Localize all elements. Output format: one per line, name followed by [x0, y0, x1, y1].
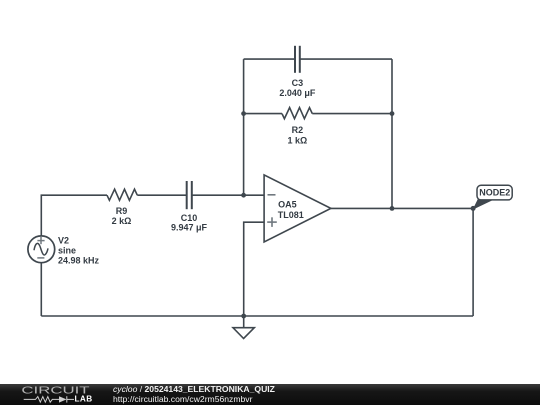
footer bar — [0, 384, 540, 405]
op-amp OA5 triangle — [264, 175, 331, 242]
svg-text:C10: C10 — [181, 213, 198, 223]
svg-text:OA5: OA5 — [278, 200, 297, 210]
V2 minus mark — [37, 257, 44, 259]
wire: output to NODE2 corner — [331, 207, 473, 209]
V2 sine symbol — [34, 243, 48, 255]
wire: non-inverting input — [244, 222, 264, 316]
wire: V2 top to R9 — [41, 195, 107, 236]
wire: V2 bottom to bottom rail — [40, 263, 42, 317]
wire: top branch to C3 — [244, 58, 295, 60]
junction node: R2 left — [241, 111, 246, 116]
wire: C10 to op-amp inverting input — [192, 194, 264, 196]
svg-text:R9: R9 — [116, 206, 128, 216]
op-amp plus input mark — [267, 221, 277, 223]
svg-text:2 kΩ: 2 kΩ — [112, 216, 132, 226]
capacitor C10 — [187, 181, 192, 209]
svg-text:24.98 kHz: 24.98 kHz — [58, 256, 100, 266]
wire: output down to bottom rail — [472, 208, 474, 316]
wire: R9 to C10 — [137, 194, 186, 196]
svg-text:C3: C3 — [292, 78, 304, 88]
voltage source V2 circle — [28, 236, 55, 263]
svg-text:TL081: TL081 — [278, 210, 304, 220]
V2 plus mark — [37, 237, 44, 258]
ground symbol — [233, 328, 254, 339]
resistor R2 — [282, 108, 312, 119]
wire: bottom rail — [41, 315, 473, 317]
op-amp minus input mark — [267, 195, 277, 227]
svg-text:LAB: LAB — [75, 394, 93, 403]
wire: left vertical to R2 — [244, 113, 282, 115]
CircuitLab logo — [0, 383, 110, 405]
wire: C3 to right feedback vertical — [300, 58, 392, 60]
svg-text:2.040 μF: 2.040 μF — [279, 88, 316, 98]
wire: right feedback vertical — [391, 59, 393, 208]
wire: R2 to right feedback vertical — [312, 113, 392, 115]
wire: left feedback vertical — [243, 59, 245, 195]
svg-text:sine: sine — [58, 245, 76, 255]
junction node: feedback tap on input wire — [241, 193, 246, 198]
svg-text:NODE2: NODE2 — [479, 188, 510, 198]
junction node: R2 right — [390, 111, 395, 116]
svg-text:R2: R2 — [292, 125, 304, 135]
capacitor C3 — [295, 46, 300, 73]
svg-text:9.947 μF: 9.947 μF — [171, 223, 208, 233]
junction node: feedback on output wire — [390, 206, 395, 211]
resistor R9 — [107, 189, 137, 200]
svg-text:V2: V2 — [58, 236, 69, 246]
svg-text:1 kΩ: 1 kΩ — [288, 136, 308, 146]
ground stub — [243, 316, 245, 328]
junction node: NODE2 corner — [471, 206, 476, 211]
junction node: ground on bottom rail — [241, 314, 246, 319]
flag NODE2 — [473, 185, 513, 210]
footer text — [113, 385, 275, 404]
